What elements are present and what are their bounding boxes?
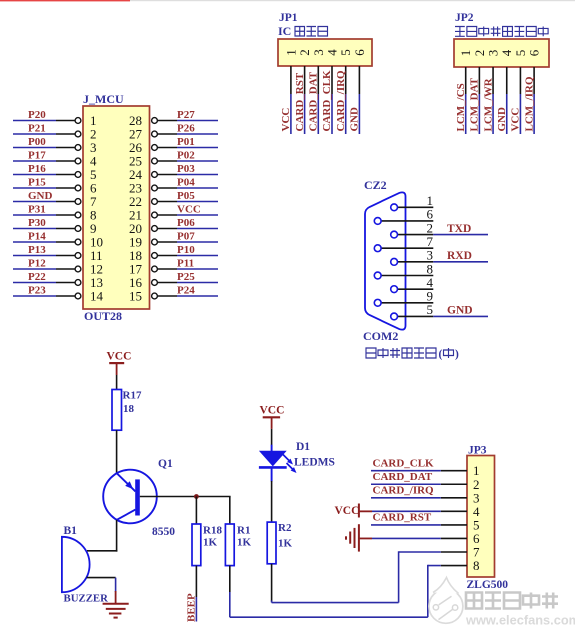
pin number 28	[129, 113, 142, 128]
svg-text:8550: 8550	[152, 526, 175, 538]
ground (buzzer)	[103, 591, 129, 618]
net label P30	[28, 217, 46, 229]
CZ2 pin number 2	[427, 220, 434, 235]
value 1K (R2)	[278, 538, 293, 550]
power VCC (R17)	[107, 351, 132, 376]
net label P13	[28, 244, 46, 256]
pin number 17	[129, 262, 143, 277]
pin 2 circle	[75, 131, 81, 137]
pin 11 circle	[75, 253, 81, 259]
pin 2 lead	[56, 133, 75, 135]
wire net CARD_/IRQ	[345, 94, 347, 134]
net label P10	[177, 244, 195, 256]
net label CARD_/IRQ	[373, 485, 435, 497]
wire net P22	[13, 282, 56, 284]
value 1K (R18)	[203, 537, 218, 549]
svg-text:GND: GND	[447, 305, 473, 317]
pin number 16	[129, 275, 143, 290]
wire Q1 collector down	[116, 520, 118, 552]
CZ2 pin 3 circle	[391, 258, 398, 265]
JP2 pin number 5	[513, 50, 528, 57]
pin number 4	[90, 154, 97, 169]
JP2 pin 2 lead	[478, 67, 480, 94]
wire buzzer bottom	[87, 577, 116, 579]
CZ2 pin 8 circle	[374, 272, 381, 279]
watermark www.elecfans.com	[465, 613, 575, 628]
svg-text:P00: P00	[28, 136, 46, 148]
svg-text:P15: P15	[28, 177, 46, 189]
svg-text:6: 6	[352, 49, 367, 56]
pin number 18	[129, 248, 142, 263]
net label P22	[28, 271, 46, 283]
pin 10 lead	[56, 241, 75, 243]
pin 6 circle	[75, 185, 81, 191]
JP2 pin 5 lead	[519, 67, 521, 94]
ground (JP3 pin6)	[346, 524, 372, 551]
net label P31	[28, 204, 46, 216]
CZ2 pin number 8	[427, 261, 434, 276]
label R18	[203, 525, 222, 537]
svg-text:(: (	[439, 349, 443, 361]
pin 26 lead	[157, 147, 177, 149]
pin 11 lead	[56, 255, 75, 257]
resistor R1	[225, 524, 234, 566]
label Q1	[158, 458, 173, 470]
net label BEEP	[186, 593, 198, 622]
CZ2 pin 2 circle	[391, 231, 398, 238]
svg-text:P23: P23	[28, 285, 46, 297]
svg-text:ZLG500: ZLG500	[467, 579, 509, 591]
svg-text:P05: P05	[177, 190, 195, 202]
svg-text:CARD_/IRQ: CARD_/IRQ	[373, 485, 435, 497]
connector JP1 body	[278, 39, 372, 66]
label JP1	[279, 12, 298, 24]
label IC card interface (IC 卡接口)	[278, 24, 328, 38]
net label P17	[28, 150, 46, 162]
svg-text:CARD_/IRQ: CARD_/IRQ	[335, 70, 347, 132]
pin 4 circle	[75, 158, 81, 164]
pin 16 lead	[157, 282, 177, 284]
pin 14 lead	[56, 295, 75, 297]
wire net GND	[13, 201, 56, 203]
pin 19 lead	[157, 241, 177, 243]
JP1 pin 5 lead	[345, 66, 347, 94]
svg-text:P01: P01	[177, 136, 195, 148]
pin 27 lead	[157, 133, 177, 135]
svg-text:P17: P17	[28, 150, 46, 162]
svg-text:VCC: VCC	[107, 351, 132, 363]
pin number 23	[129, 181, 142, 196]
watermark 电子发烧友	[466, 593, 558, 609]
pin number 25	[129, 154, 142, 169]
label water-meter LCD module interface (水表液晶模块接口)	[455, 27, 548, 37]
connector CZ2 DB9 body	[365, 192, 406, 329]
pin 5 lead	[56, 174, 75, 176]
net label P05	[177, 190, 195, 202]
net label P02	[177, 150, 195, 162]
pin number 27	[129, 127, 143, 142]
wire net CARD_RST	[304, 94, 306, 134]
svg-text:VCC: VCC	[260, 405, 285, 417]
pin 28 circle	[152, 118, 158, 124]
JP2 pin number 1	[458, 50, 473, 57]
svg-text:P30: P30	[28, 217, 46, 229]
label R2	[278, 522, 292, 534]
pin 15 lead	[157, 295, 177, 297]
svg-text:VCC: VCC	[280, 108, 292, 132]
transistor Q1 8550	[103, 470, 157, 524]
svg-text:VCC: VCC	[177, 204, 201, 216]
svg-text:P24: P24	[177, 285, 195, 297]
wire to R1 top	[229, 497, 231, 525]
pin 26 circle	[152, 145, 158, 151]
watermark logo	[429, 578, 463, 624]
pin 20 lead	[157, 228, 177, 230]
connector JP3 body	[467, 456, 495, 578]
JP2 pin number 2	[472, 50, 487, 57]
CZ2 pin 2 lead	[398, 234, 434, 236]
wire net P30	[13, 228, 56, 230]
CZ2 pin 9 lead	[381, 302, 433, 304]
wire net P05	[177, 201, 218, 203]
svg-text:P31: P31	[28, 204, 46, 216]
wire net LCM_/CS	[465, 94, 467, 134]
CZ2 pin number 9	[427, 289, 434, 304]
svg-text:P06: P06	[177, 217, 195, 229]
pin number 12	[90, 262, 103, 277]
JP1 pin number 3	[311, 49, 326, 56]
wire Q1 base to junction	[140, 496, 231, 498]
net label P01	[177, 136, 195, 148]
pin 25 circle	[152, 158, 158, 164]
label COM2	[363, 329, 398, 343]
wire net P31	[13, 214, 56, 216]
net label GND	[28, 190, 53, 202]
svg-text:P03: P03	[177, 163, 195, 175]
svg-text:VCC: VCC	[510, 108, 522, 132]
svg-text:P16: P16	[28, 163, 46, 175]
label D1	[296, 441, 310, 453]
pin 23 lead	[157, 187, 177, 189]
CZ2 pin 5 lead	[398, 315, 434, 317]
svg-text:P11: P11	[177, 258, 194, 270]
svg-text:LCM_DAT: LCM_DAT	[469, 77, 481, 131]
net label GND	[496, 107, 508, 132]
pin 19 circle	[152, 239, 158, 245]
svg-text:BEEP: BEEP	[186, 593, 198, 622]
net label P25	[177, 271, 195, 283]
wire net P16	[13, 174, 56, 176]
net label P07	[177, 231, 195, 243]
pin number 24	[129, 167, 143, 182]
pin 3 lead	[56, 147, 75, 149]
JP3 pin 5 lead	[441, 524, 467, 526]
CZ2 pin number 7	[427, 234, 434, 249]
JP3 pin 4 lead	[441, 510, 467, 512]
pin number 10	[90, 235, 103, 250]
net label VCC	[280, 108, 292, 132]
value 18	[123, 403, 135, 415]
CZ2 pin number 6	[427, 207, 434, 222]
net label CARD_DAT	[308, 71, 320, 131]
pin number 6	[90, 181, 97, 196]
wire net P07	[177, 241, 218, 243]
svg-text:LEDMS: LEDMS	[294, 457, 335, 469]
pin 22 lead	[157, 201, 177, 203]
pin 17 circle	[152, 266, 158, 272]
net label P20	[28, 109, 46, 121]
net label CARD_/IRQ	[335, 70, 347, 132]
JP1 pin 6 lead	[358, 66, 360, 94]
wire net P13	[13, 255, 56, 257]
wire net GND	[506, 94, 508, 134]
net label P04	[177, 177, 195, 189]
pin 3 circle	[75, 145, 81, 151]
svg-text:P20: P20	[28, 109, 46, 121]
net label P24	[177, 285, 195, 297]
svg-text:D1: D1	[296, 441, 310, 453]
pin number 1	[90, 113, 97, 128]
pin 23 circle	[152, 185, 158, 191]
net label TXD	[447, 223, 471, 235]
CZ2 pin number 5	[427, 302, 434, 317]
CZ2 pin 4 lead	[398, 288, 434, 290]
CZ2 pin 8 lead	[381, 275, 433, 277]
value 1K (R1)	[237, 537, 252, 549]
wire net BEEP	[195, 597, 197, 622]
wire net LCM_DAT	[478, 94, 480, 134]
JP2 pin number 6	[527, 49, 542, 56]
JP3 pin 7 lead	[441, 551, 467, 553]
JP3 pin 6 lead	[441, 537, 467, 539]
wire net P25	[177, 282, 218, 284]
svg-text:CARD_DAT: CARD_DAT	[373, 471, 433, 483]
pin 28 lead	[157, 120, 177, 122]
wire net P12	[13, 268, 56, 270]
connector JP2 body	[454, 39, 549, 67]
wire R2 down	[271, 564, 273, 602]
pin 7 circle	[75, 199, 81, 205]
svg-text:OUT28: OUT28	[84, 309, 122, 323]
pin number 8	[90, 208, 97, 223]
wire net CARD_CLK	[331, 94, 333, 134]
svg-text:JP2: JP2	[455, 12, 474, 24]
resistor R18	[192, 524, 201, 566]
pin 4 lead	[56, 160, 75, 162]
svg-text:P12: P12	[28, 258, 46, 270]
JP3 pin number 3	[473, 490, 480, 505]
pin number 20	[129, 221, 142, 236]
pin 17 lead	[157, 268, 177, 270]
svg-text:5: 5	[427, 302, 434, 317]
wire riser to pin8	[427, 565, 429, 617]
pin 25 lead	[157, 160, 177, 162]
wire net VCC	[290, 94, 292, 134]
svg-text:CARD_CLK: CARD_CLK	[321, 70, 333, 132]
JP2 pin 6 lead	[533, 67, 535, 94]
wire net P01	[177, 147, 218, 149]
svg-text:P21: P21	[28, 123, 46, 135]
pin 7 lead	[56, 201, 75, 203]
svg-text:15: 15	[129, 289, 142, 304]
wire R18 down	[195, 566, 197, 597]
pin 20 circle	[152, 226, 158, 232]
wire net TXD	[433, 234, 488, 236]
pin 13 circle	[75, 280, 81, 286]
CZ2 pin 7 lead	[381, 247, 433, 249]
pin number 14	[90, 289, 104, 304]
wire net P26	[177, 133, 218, 135]
wire collector to buzzer	[87, 550, 117, 552]
JP3 pin number 1	[473, 463, 480, 478]
pin number 15	[129, 289, 142, 304]
CZ2 pin number 3	[427, 248, 434, 263]
CZ2 pin 5 circle	[391, 313, 398, 320]
pin 15 circle	[152, 293, 158, 299]
JP3 pin 8 lead	[441, 565, 467, 567]
wire net P14	[13, 241, 56, 243]
net label P26	[177, 123, 195, 135]
svg-text:LCM_/CS: LCM_/CS	[455, 83, 467, 131]
net label CARD_DAT	[373, 471, 433, 483]
net label CARD_CLK	[321, 70, 333, 132]
net label CARD_RST	[294, 72, 306, 131]
label J_MCU	[83, 92, 124, 106]
wire junction to R18	[195, 497, 197, 525]
pin 14 circle	[75, 293, 81, 299]
label BUZZER	[64, 593, 109, 605]
top bar red segment	[0, 0, 130, 1]
JP1 pin number 6	[352, 49, 367, 56]
label JP3	[468, 445, 487, 457]
wire net P02	[177, 160, 218, 162]
svg-text:P27: P27	[177, 109, 195, 121]
JP1 pin 3 lead	[317, 66, 319, 94]
svg-text:CARD_DAT: CARD_DAT	[308, 71, 320, 131]
net label P27	[177, 109, 195, 121]
pin number 3	[90, 140, 97, 155]
svg-text:1K: 1K	[278, 538, 293, 550]
pin number 13	[90, 275, 103, 290]
CZ2 pin 6 lead	[381, 220, 433, 222]
junction	[194, 494, 199, 499]
net label P06	[177, 217, 195, 229]
svg-text:JP1: JP1	[279, 12, 298, 24]
wire net LCM_/IRQ	[533, 94, 535, 134]
JP3 pin 3 lead	[441, 497, 467, 499]
wire R1 to corner	[229, 592, 231, 617]
svg-text:P14: P14	[28, 231, 46, 243]
CZ2 pin 7 circle	[374, 245, 381, 252]
net label LCM_/WR	[482, 77, 494, 131]
svg-text:1K: 1K	[203, 537, 218, 549]
label B1	[64, 525, 78, 537]
CZ2 pin number 4	[427, 275, 434, 290]
wire riser to pin7	[398, 551, 400, 602]
net label P00	[28, 136, 46, 148]
pin 13 lead	[56, 282, 75, 284]
net label P14	[28, 231, 46, 243]
JP2 pin 4 lead	[506, 67, 508, 94]
pin 16 circle	[152, 280, 158, 286]
net label VCC	[510, 108, 522, 132]
wire net P15	[13, 187, 56, 189]
pin 22 circle	[152, 199, 158, 205]
pin number 21	[129, 208, 142, 223]
pin 6 lead	[56, 187, 75, 189]
svg-text:BUZZER: BUZZER	[64, 593, 109, 605]
wire net CARD_RST	[371, 524, 441, 526]
svg-text:6: 6	[527, 49, 542, 56]
CZ2 pin 1 circle	[391, 204, 398, 211]
net label P15	[28, 177, 46, 189]
wire net P27	[177, 120, 218, 122]
pin 21 lead	[157, 214, 177, 216]
JP3 pin number 6	[473, 531, 480, 546]
pin 5 circle	[75, 172, 81, 178]
svg-text:): )	[455, 349, 459, 361]
svg-text:P10: P10	[177, 244, 195, 256]
wire net P03	[177, 174, 218, 176]
svg-text:P22: P22	[28, 271, 46, 283]
label R1	[237, 525, 250, 537]
svg-text:CZ2: CZ2	[364, 178, 387, 192]
net label LCM_/CS	[455, 83, 467, 131]
pin 1 circle	[75, 118, 81, 124]
net label P16	[28, 163, 46, 175]
net label GND	[447, 305, 473, 317]
JP2 pin number 4	[499, 49, 514, 56]
svg-text:R18: R18	[203, 525, 222, 537]
svg-text:P26: P26	[177, 123, 195, 135]
wire net CARD_CLK	[371, 470, 441, 472]
wire VCC to D1	[271, 429, 273, 445]
pin 12 circle	[75, 266, 81, 272]
power VCC (JP3 pin4)	[335, 504, 373, 518]
svg-text:18: 18	[123, 403, 135, 415]
svg-text:P02: P02	[177, 150, 195, 162]
wire VCC to R17	[116, 375, 118, 390]
pin number 7	[90, 194, 97, 209]
wire net P11	[177, 268, 218, 270]
label OUT28	[84, 309, 122, 323]
net label P21	[28, 123, 46, 135]
wire net P21	[13, 133, 56, 135]
wire net CARD_DAT	[317, 94, 319, 134]
wire net RXD	[433, 261, 488, 263]
pin number 11	[90, 248, 103, 263]
wire net P24	[177, 295, 218, 297]
svg-text:P04: P04	[177, 177, 195, 189]
wire net GND	[433, 315, 488, 317]
wire D1 to R2	[271, 481, 273, 522]
wire net P20	[13, 120, 56, 122]
JP3 pin 2 lead	[441, 483, 467, 485]
value 8550	[152, 526, 175, 538]
JP2 pin 3 lead	[492, 67, 494, 94]
JP2 pin number 3	[486, 50, 501, 57]
net label P11	[177, 258, 194, 270]
JP2 pin 1 lead	[465, 67, 467, 94]
JP1 pin number 2	[297, 49, 312, 56]
wire net LCM_/WR	[492, 94, 494, 134]
svg-text:1K: 1K	[237, 537, 252, 549]
CZ2 pin 1 lead	[398, 206, 434, 208]
wire net P17	[13, 160, 56, 162]
pin 21 circle	[152, 212, 158, 218]
net label CARD_CLK	[373, 458, 435, 470]
JP3 pin number 4	[473, 504, 480, 519]
